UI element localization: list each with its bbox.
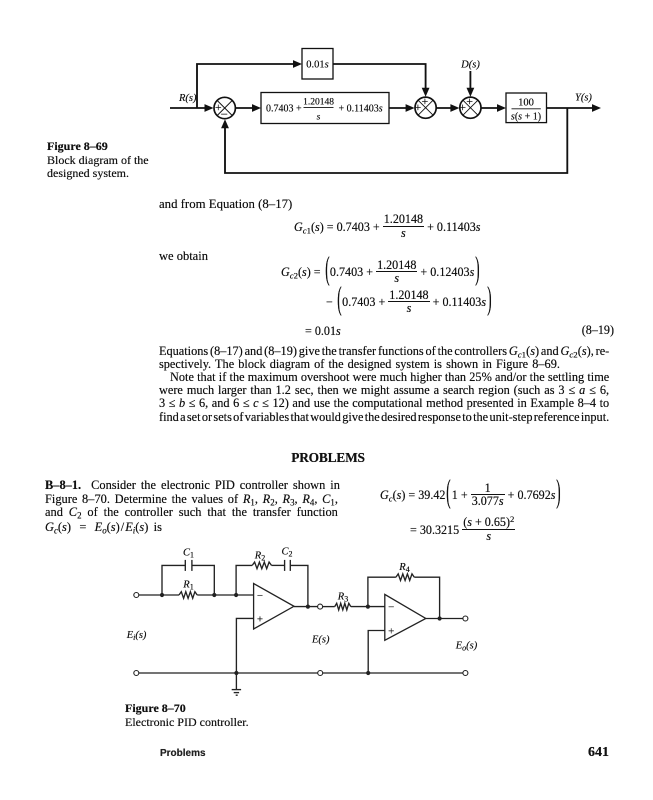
equation Gc2 line 3 (305, 324, 341, 339)
node F (U2 output) (438, 616, 442, 620)
footer running head (160, 748, 206, 759)
arrowhead into sum3 left (450, 104, 459, 112)
resistor R3 (335, 603, 351, 610)
arrowhead D(s) into sum3 top (467, 88, 475, 97)
svg-text:0.01s: 0.01s (306, 60, 328, 71)
wire U2 plus input down to rail (368, 631, 385, 674)
terminal input Ei (134, 593, 139, 598)
svg-text:Ei(s): Ei(s) (126, 630, 147, 642)
op-amp U2 (385, 594, 426, 640)
equation Gc2 line 1 (281, 260, 481, 286)
svg-text:C2: C2 (281, 547, 292, 559)
node E (inverting input U2) (366, 605, 370, 609)
wire R1 leads on input line (162, 594, 179, 596)
we obtain (159, 249, 208, 264)
footer page number (509, 745, 609, 761)
svg-text:+: + (459, 100, 466, 114)
PROBLEMS heading (0, 450, 653, 466)
Figure 8-69 caption (47, 140, 167, 181)
wire sum1 to controller block (235, 107, 256, 109)
wire U1 plus input to ground rail (236, 618, 253, 673)
equation Gc2 line 2 (326, 290, 492, 316)
node C (inverting input U1) (234, 593, 238, 597)
wire sum3 to plant block (481, 107, 501, 109)
svg-text:−: − (221, 107, 228, 122)
wire U2 output to Eo terminal (426, 618, 463, 620)
svg-text:Y(s): Y(s) (575, 93, 592, 104)
node D (U1 output) (306, 605, 310, 609)
B-8-1 problem text (45, 478, 340, 493)
equation Gc1 (294, 215, 481, 241)
wire input to node A (139, 594, 162, 596)
terminal rail left (134, 671, 139, 676)
arrowhead into 0.01s block (293, 60, 302, 68)
block controller Gc1 (261, 93, 389, 124)
node A (input node) (160, 593, 164, 597)
wire branch up to 0.01s block (197, 64, 296, 108)
svg-text:0.7403 +: 0.7403 + (266, 104, 302, 115)
arrowhead into sum2 top (422, 88, 430, 97)
svg-text:+: + (257, 613, 263, 625)
arrowhead into plant block (497, 104, 506, 112)
wire 0.01s block to summing point 2 (333, 64, 426, 93)
resistor R1 (179, 592, 197, 599)
svg-text:R(s): R(s) (178, 93, 197, 104)
Figure 8-70 caption (125, 702, 285, 729)
terminal E(s) (318, 604, 323, 609)
summing point 1 (214, 97, 235, 118)
summing point 3 (460, 97, 481, 118)
svg-text:R1: R1 (182, 580, 193, 592)
svg-text:R2: R2 (254, 551, 265, 563)
problem equation line 2 (410, 518, 515, 544)
wire feedback branch up from node C (236, 565, 252, 595)
svg-text:−: − (388, 601, 394, 613)
svg-text:100: 100 (518, 98, 534, 109)
svg-text:E(s): E(s) (311, 635, 330, 646)
wire feedback loop (225, 108, 567, 173)
wire input R(s) (170, 107, 209, 109)
capacitor C2 (285, 560, 291, 571)
and from Equation line (159, 197, 292, 212)
terminal rail right (463, 671, 468, 676)
wire R4 feedback branch (368, 577, 396, 606)
svg-text:1.20148: 1.20148 (303, 98, 334, 108)
ground (232, 673, 241, 695)
svg-text:D(s): D(s) (460, 60, 480, 71)
arrowhead into sum2 left (406, 104, 415, 112)
svg-text:R3: R3 (337, 592, 348, 604)
svg-text:+: + (388, 625, 394, 637)
arrowhead feedback into sum1 bottom (221, 119, 229, 128)
block 0.01s (302, 49, 333, 80)
wire D(s) arrow down to sum3 (469, 71, 471, 93)
node B (right of R1) (212, 593, 216, 597)
capacitor C1 (185, 560, 192, 571)
svg-text:R4: R4 (398, 562, 409, 574)
svg-text:s(s + 1): s(s + 1) (511, 112, 541, 123)
wire C2 down to output node D (290, 565, 308, 606)
svg-text:−: − (257, 590, 263, 602)
arrowhead into sum1 (205, 104, 214, 112)
svg-text:s: s (317, 113, 321, 123)
op-amp U1 (254, 584, 294, 630)
equation number 8-19 (514, 323, 614, 338)
resistor R2 (252, 562, 271, 569)
wire U1 output to E(s) terminal (294, 606, 318, 608)
wire bottom rail (139, 672, 318, 674)
terminal output Eo (463, 616, 468, 621)
arrowhead into controller block (252, 104, 261, 112)
wire E(s) terminal to R3 (323, 606, 335, 608)
terminal rail middle (318, 671, 323, 676)
paragraph 1 (159, 344, 609, 359)
svg-text:+ 0.11403s: + 0.11403s (339, 104, 383, 115)
wire node B to op-amp U1 inverting input (214, 594, 253, 596)
problem equation line 1 (380, 483, 562, 509)
wire C1 branch (162, 565, 185, 595)
wire plant output Y(s) (547, 107, 598, 109)
summing point 2 (415, 97, 436, 118)
svg-text:+: + (415, 100, 422, 114)
wire R3 to node E (351, 606, 385, 608)
svg-text:Eo(s): Eo(s) (455, 641, 478, 653)
node G (ground rail junction) (234, 671, 238, 675)
svg-text:C1: C1 (183, 548, 194, 560)
block plant 100/s(s+1) (506, 93, 547, 123)
arrowhead output Y(s) (592, 104, 601, 112)
svg-text:+: + (466, 94, 473, 108)
wire controller block to sum2 (389, 107, 410, 109)
svg-text:+: + (422, 94, 429, 108)
wire R2 to C2 (272, 564, 285, 566)
resistor R4 (396, 574, 414, 581)
wire sum2 to sum3 (436, 107, 455, 109)
node H (rail junction below U2) (366, 671, 370, 675)
